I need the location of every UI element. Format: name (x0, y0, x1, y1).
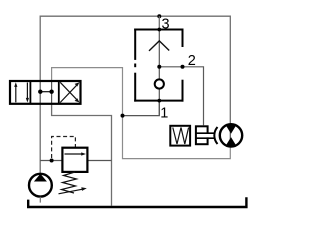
node: dot port 3 on envelope (157, 28, 161, 32)
node: junction dot grey net tee (121, 114, 125, 118)
relief valve adjustable spring (59, 172, 87, 194)
wire: top bus from valve P-side over to motor top (40, 16, 230, 123)
wire: port 2 branch to brake cylinder (159, 67, 203, 126)
node: junction dot on top bus at cartridge port 3 drop (157, 14, 161, 18)
node: junction dot relief pilot tap (50, 159, 54, 163)
wire: pump suction stub to tank (39, 197, 41, 203)
brake shoe arc against motor (214, 127, 217, 144)
valve centre cell: blocked ports with dots and bar (38, 90, 54, 94)
cartridge poppet ball circle (155, 79, 164, 88)
hydraulic motor circle with two triangles (220, 124, 242, 148)
node: junction dot port 2 on internal line (157, 65, 161, 69)
wire: pump pressure line up through valve (39, 81, 41, 173)
cartridge poppet seat chevron (149, 41, 169, 51)
svg-text:3: 3 (162, 16, 170, 32)
wire: relief valve pilot dashed line (52, 137, 76, 159)
wire: grey net valve B-port to motor bottom (52, 68, 231, 159)
pump circle with up triangle (29, 174, 52, 197)
wire: valve B port through valve down (51, 81, 53, 104)
directional control valve 3-position body (10, 81, 81, 104)
node: junction dot port 2 on cartridge envelope (181, 65, 185, 69)
cartridge valve dashed envelope (134, 29, 183, 102)
valve right cell: crossed arrows (60, 82, 79, 102)
valve left cell: parallel flow arrows (14, 82, 29, 102)
wire: relief valve inlet branch (40, 160, 62, 162)
node: dot port 1 on envelope (157, 99, 161, 103)
wire: relief valve outlet to tank line (87, 160, 111, 162)
wire: drop from top bus to cartridge port 3 (158, 16, 160, 29)
brake spring chamber with spring (170, 126, 190, 146)
tank reservoir bracket (28, 197, 246, 207)
relief valve body (62, 148, 87, 172)
wire: port 1 line down and left to grey net (123, 101, 160, 116)
svg-text:2: 2 (188, 53, 196, 69)
wire: cartridge internal vertical line port3 to port1 (158, 30, 160, 116)
wire: tank return from valve to bottom bus (52, 104, 112, 206)
brake piston rod (two lines) (196, 133, 216, 138)
svg-text:1: 1 (160, 105, 168, 121)
brake cylinder with piston (196, 126, 210, 144)
